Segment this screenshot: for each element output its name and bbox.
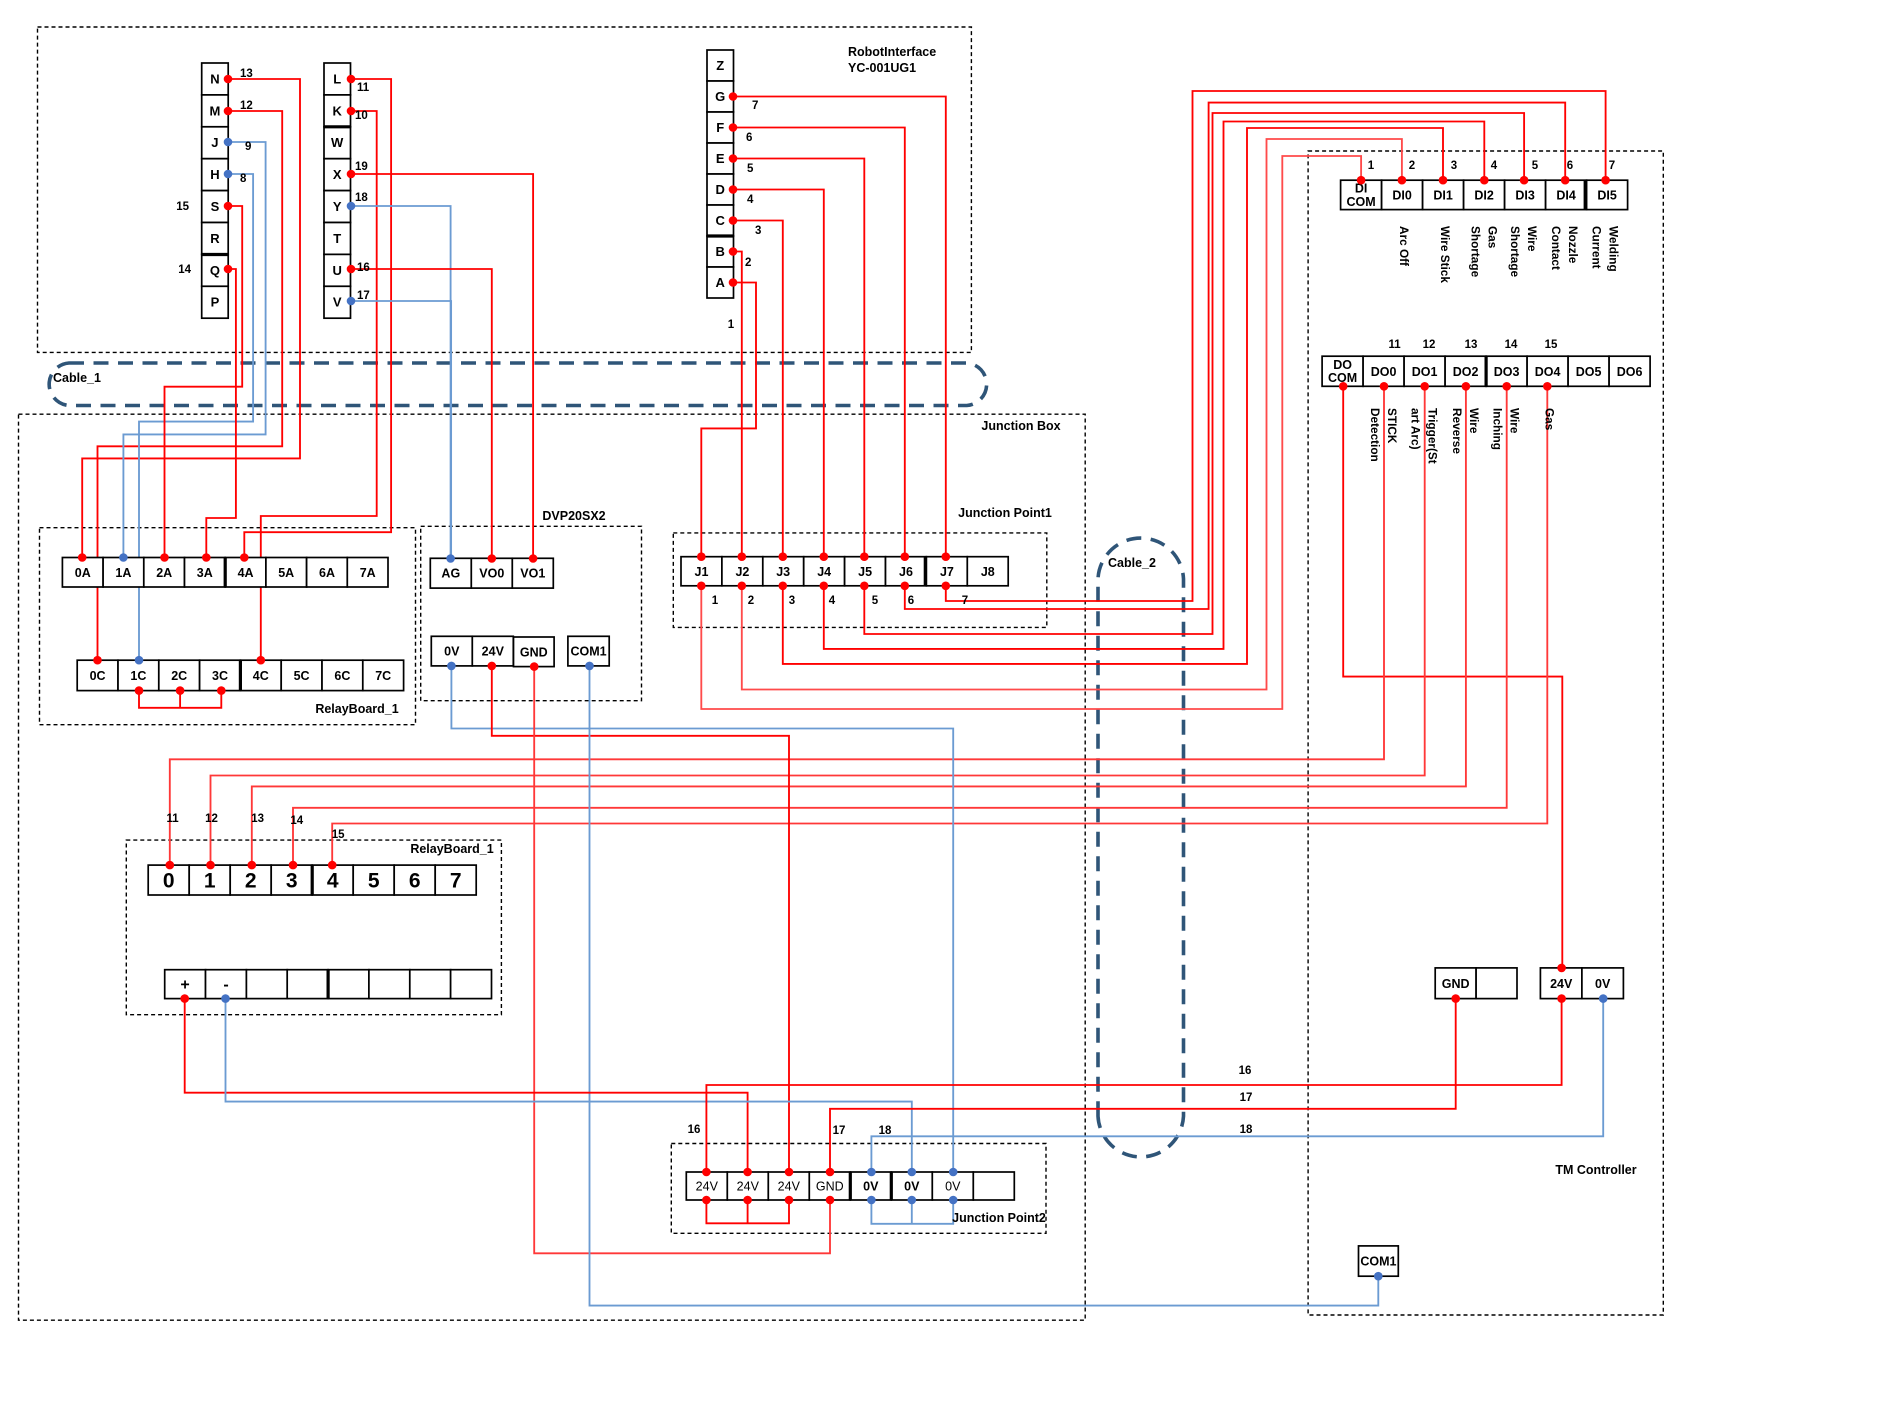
svg-text:A: A: [716, 275, 726, 290]
svg-text:16: 16: [357, 262, 370, 274]
wire - to JP2 0V2: [226, 999, 912, 1172]
svg-text:7: 7: [1609, 160, 1615, 172]
svg-text:13: 13: [240, 68, 253, 80]
svg-text:6: 6: [409, 870, 421, 893]
heavy separator under K: [324, 125, 351, 128]
terminal column Z-A: [707, 50, 734, 298]
node dots TM DO: [1339, 382, 1348, 391]
svg-text:Reverse: Reverse: [1450, 408, 1464, 454]
node dots lower relay: [166, 861, 175, 870]
heavy separator under R: [202, 253, 229, 256]
svg-text:Current: Current: [1590, 226, 1604, 269]
svg-text:14: 14: [178, 264, 191, 276]
svg-text:17: 17: [357, 290, 370, 302]
svg-text:Junction Point1: Junction Point1: [958, 506, 1052, 520]
heavy separator under C: [707, 234, 734, 237]
svg-text:2C: 2C: [171, 669, 187, 683]
svg-text:6A: 6A: [319, 566, 335, 580]
svg-text:Contact: Contact: [1549, 226, 1563, 270]
svg-text:3: 3: [789, 595, 795, 607]
svg-text:16: 16: [688, 1124, 701, 1136]
svg-text:Gas: Gas: [1485, 226, 1499, 249]
cable Cable_1 capsule: [49, 363, 986, 406]
svg-text:0V: 0V: [863, 1180, 879, 1194]
wire DVP 24V to JP2 24V: [492, 666, 789, 1172]
wire J2-2 to DI0: [742, 139, 1402, 690]
svg-text:DI5: DI5: [1597, 188, 1617, 202]
strip relay contacts A: [62, 558, 388, 588]
heavy separator DI4|DI5: [1584, 180, 1587, 209]
svg-text:17: 17: [833, 1125, 846, 1137]
svg-text:DO0: DO0: [1371, 365, 1397, 379]
svg-text:11: 11: [167, 813, 180, 825]
svg-text:DO3: DO3: [1494, 365, 1520, 379]
strip DVP analog: [430, 558, 553, 588]
svg-text:YC-001UG1: YC-001UG1: [848, 61, 916, 75]
svg-text:24V: 24V: [696, 1180, 719, 1194]
strip Junction Point1: [681, 557, 1008, 586]
svg-text:DI1: DI1: [1433, 188, 1453, 202]
svg-text:J8: J8: [981, 565, 995, 579]
node dots DVP power: [447, 662, 456, 671]
wire D(4) to J4: [733, 190, 824, 557]
svg-text:Q: Q: [210, 263, 220, 278]
svg-text:11: 11: [357, 82, 370, 94]
svg-text:J6: J6: [899, 565, 913, 579]
svg-text:19: 19: [355, 161, 368, 173]
Junction Box dashed box: [19, 414, 1086, 1320]
svg-text:DI4: DI4: [1556, 188, 1576, 202]
svg-text:Shortage: Shortage: [1468, 226, 1482, 278]
svg-text:6C: 6C: [334, 669, 350, 683]
svg-text:Z: Z: [716, 58, 724, 73]
terminal column L-V: [324, 63, 351, 318]
svg-text:E: E: [716, 151, 725, 166]
svg-text:B: B: [716, 244, 725, 259]
strip lower relay power: [165, 970, 492, 999]
terminal column N-P: [202, 63, 229, 318]
svg-text:J5: J5: [858, 565, 872, 579]
svg-text:2: 2: [1409, 160, 1415, 172]
svg-text:3: 3: [1451, 160, 1457, 172]
svg-text:13: 13: [1465, 339, 1478, 351]
svg-text:M: M: [209, 103, 220, 118]
svg-text:5: 5: [1532, 160, 1539, 172]
wire bus 24V JP2: [706, 1200, 789, 1223]
svg-text:S: S: [211, 199, 220, 214]
svg-text:J3: J3: [776, 565, 790, 579]
svg-text:7: 7: [962, 595, 968, 607]
wire U(16) to VO0: [351, 269, 492, 559]
svg-text:VO1: VO1: [520, 567, 545, 581]
RobotInterface outer dashed box: [38, 27, 972, 352]
svg-text:VO0: VO0: [479, 567, 504, 581]
svg-text:5: 5: [872, 595, 879, 607]
svg-text:6: 6: [1567, 160, 1573, 172]
svg-text:7: 7: [752, 100, 758, 112]
svg-text:Junction Box: Junction Box: [981, 419, 1060, 433]
node dots Junction Point1: [697, 552, 706, 561]
svg-text:1: 1: [204, 870, 216, 893]
svg-text:COM1: COM1: [1360, 1255, 1396, 1269]
svg-text:COM: COM: [1347, 195, 1376, 209]
svg-text:Wire: Wire: [1508, 408, 1522, 434]
svg-text:0V: 0V: [904, 1180, 920, 1194]
svg-text:N: N: [210, 72, 219, 87]
svg-text:DI3: DI3: [1515, 188, 1535, 202]
svg-text:4: 4: [829, 595, 836, 607]
wire DVP GND to JP2 GND: [534, 667, 830, 1254]
svg-text:6: 6: [908, 595, 914, 607]
svg-text:12: 12: [240, 100, 253, 112]
strip TM GND: [1435, 968, 1517, 999]
svg-text:Cable_2: Cable_2: [1108, 556, 1156, 570]
svg-text:F: F: [716, 120, 724, 135]
svg-text:U: U: [333, 263, 342, 278]
svg-text:Welding: Welding: [1607, 226, 1621, 272]
svg-text:G: G: [715, 89, 725, 104]
svg-text:24V: 24V: [778, 1180, 801, 1194]
svg-text:0V: 0V: [444, 645, 460, 659]
svg-text:T: T: [333, 231, 341, 246]
svg-text:Shortage: Shortage: [1508, 226, 1522, 278]
svg-text:17: 17: [1240, 1092, 1253, 1104]
wire DVP COM1 to TM COM1: [590, 666, 1379, 1306]
wire V(17) to AG: [351, 301, 451, 559]
svg-text:18: 18: [1240, 1124, 1253, 1136]
svg-text:0V: 0V: [1595, 977, 1611, 991]
wire bus 1C-2C-3C: [139, 691, 221, 708]
wire S(15) to 2A: [165, 206, 243, 558]
svg-text:RelayBoard_1: RelayBoard_1: [315, 702, 398, 716]
svg-text:AG: AG: [441, 567, 460, 581]
svg-text:7A: 7A: [360, 566, 376, 580]
svg-text:10: 10: [355, 110, 368, 122]
svg-text:1: 1: [712, 595, 719, 607]
wire DO0-11 to relay 0: [170, 386, 1384, 865]
node dots DVP analog: [446, 554, 455, 563]
svg-text:16: 16: [1239, 1065, 1252, 1077]
node dots column 1: [224, 75, 233, 84]
strip TM DO: [1322, 356, 1650, 386]
wire J3-3 to DI1: [783, 128, 1443, 664]
heavy separator J6|J7: [924, 557, 927, 586]
svg-text:W: W: [331, 135, 344, 150]
svg-text:Y: Y: [333, 199, 342, 214]
node dots TM power: [1451, 994, 1460, 1003]
svg-text:2: 2: [245, 870, 257, 893]
svg-text:4: 4: [747, 194, 754, 206]
svg-text:11: 11: [1389, 339, 1402, 351]
svg-text:0: 0: [163, 870, 175, 893]
RelayBoard_1 dashed box (lower): [126, 840, 501, 1015]
wire 18 JP2 0V1 to TM 0V: [871, 999, 1603, 1172]
heavy separator 3C|4C: [239, 660, 242, 690]
heavy separator 3A|4A: [224, 558, 227, 588]
node dots relay C row: [93, 656, 102, 665]
svg-text:J: J: [211, 135, 218, 150]
heavy separator 3|4: [311, 865, 314, 895]
wire K(10) to 4C: [261, 111, 377, 660]
wire 16 JP2 24V1 to TM 24V: [706, 999, 1561, 1172]
svg-text:Gas: Gas: [1542, 408, 1556, 431]
svg-text:DO5: DO5: [1576, 365, 1602, 379]
DVP20SX2 dashed box: [421, 526, 642, 700]
svg-text:14: 14: [1505, 339, 1518, 351]
svg-text:Wire: Wire: [1467, 408, 1481, 434]
svg-text:COM1: COM1: [570, 645, 606, 659]
svg-text:5: 5: [368, 870, 380, 893]
svg-text:R: R: [210, 231, 220, 246]
strip TM 24V 0V: [1540, 968, 1623, 999]
svg-text:15: 15: [332, 829, 345, 841]
wire DO2-13 to relay 2: [252, 386, 1466, 865]
Junction Point1 dashed box: [673, 533, 1047, 628]
svg-text:2A: 2A: [156, 566, 172, 580]
TM Controller dashed box: [1308, 151, 1663, 1315]
svg-text:V: V: [333, 295, 342, 310]
svg-text:5A: 5A: [278, 566, 294, 580]
svg-text:4: 4: [1491, 160, 1498, 172]
node dot TM COM1: [1374, 1272, 1383, 1281]
wire E(5) to J5: [733, 159, 864, 557]
svg-text:14: 14: [290, 815, 303, 827]
svg-text:RobotInterface: RobotInterface: [848, 45, 936, 59]
svg-text:18: 18: [879, 1125, 892, 1137]
wire J5-5 to DI3: [864, 113, 1524, 634]
wire Y(18) to AG: [351, 206, 451, 559]
svg-text:1: 1: [1368, 160, 1375, 172]
wire N(13) to 0A: [82, 79, 300, 558]
svg-text:DO1: DO1: [1412, 365, 1438, 379]
svg-text:DI2: DI2: [1474, 188, 1494, 202]
wire L(11) to 4A: [244, 79, 391, 558]
wire bus drop 0V2: [911, 1200, 913, 1224]
svg-text:Junction Point2: Junction Point2: [952, 1211, 1046, 1225]
strip relay contacts C: [77, 660, 403, 690]
wire bus drop 24V2: [747, 1200, 749, 1223]
Junction Point2 dashed box: [671, 1144, 1046, 1234]
node dots relay A row: [78, 553, 87, 562]
wire J6-6 to DI4: [905, 103, 1565, 609]
wire DVP 0V to JP2 0V: [451, 666, 953, 1172]
svg-text:7: 7: [450, 870, 462, 893]
svg-text:RelayBoard_1: RelayBoard_1: [410, 842, 493, 856]
wire B(2) to J2: [733, 252, 742, 557]
svg-text:art Arc): art Arc): [1409, 408, 1423, 450]
svg-text:24V: 24V: [1550, 977, 1573, 991]
svg-text:5: 5: [747, 163, 754, 175]
svg-text:0V: 0V: [945, 1180, 961, 1194]
svg-text:Nozzle: Nozzle: [1566, 226, 1580, 264]
svg-text:2: 2: [745, 257, 751, 269]
svg-text:Wire: Wire: [1525, 226, 1539, 252]
svg-text:1A: 1A: [115, 566, 131, 580]
cable Cable_2 capsule: [1098, 538, 1184, 1157]
wire + to JP2 24V2: [185, 999, 748, 1172]
svg-text:8: 8: [240, 173, 247, 185]
svg-text:X: X: [333, 167, 342, 182]
svg-text:6: 6: [746, 132, 752, 144]
wire J4-4 to DI2: [824, 122, 1485, 649]
svg-text:3C: 3C: [212, 669, 228, 683]
wire J1-1 to DI COM: [701, 156, 1361, 709]
wire F(6) to J6: [733, 128, 905, 557]
svg-text:GND: GND: [1442, 977, 1470, 991]
node dots Junction Point2: [702, 1168, 711, 1177]
svg-text:7C: 7C: [375, 669, 391, 683]
svg-text:J7: J7: [940, 565, 954, 579]
svg-text:J2: J2: [735, 565, 749, 579]
svg-text:Detection: Detection: [1368, 408, 1382, 462]
svg-text:13: 13: [251, 813, 264, 825]
RelayBoard_1 dashed box (top): [40, 528, 416, 725]
heavy separator DO2|DO3: [1484, 356, 1487, 386]
svg-text:DVP20SX2: DVP20SX2: [542, 509, 605, 523]
svg-text:24V: 24V: [737, 1180, 760, 1194]
svg-text:DO2: DO2: [1453, 365, 1479, 379]
svg-text:1: 1: [728, 319, 735, 331]
svg-text:J1: J1: [695, 565, 709, 579]
svg-text:Arc Off: Arc Off: [1397, 226, 1411, 266]
strip lower relay outputs: [148, 865, 476, 895]
svg-text:4C: 4C: [253, 669, 269, 683]
svg-text:12: 12: [205, 813, 218, 825]
svg-text:12: 12: [1423, 339, 1436, 351]
svg-text:2: 2: [748, 595, 754, 607]
svg-text:+: +: [180, 977, 189, 994]
wire G(7) to J7: [733, 97, 946, 557]
svg-text:0A: 0A: [75, 566, 91, 580]
svg-text:C: C: [716, 213, 726, 228]
wire DO4-15 to relay 4: [332, 386, 1547, 865]
svg-text:24V: 24V: [482, 645, 505, 659]
svg-text:DO: DO: [1333, 358, 1352, 372]
svg-text:3: 3: [286, 870, 298, 893]
strip DVP COM1: [568, 636, 609, 666]
svg-text:J4: J4: [817, 565, 831, 579]
svg-text:Wire Stick: Wire Stick: [1438, 226, 1452, 283]
wire J7-7 to DI5: [946, 91, 1606, 601]
wire Q(14) to 3A: [206, 269, 236, 558]
wire DO COM to TM 24V: [1343, 386, 1562, 968]
heavy separator 0V|0V JP2: [890, 1172, 893, 1200]
svg-text:DO4: DO4: [1535, 365, 1561, 379]
heavy separator GND|0V JP2: [849, 1172, 852, 1200]
svg-text:18: 18: [355, 192, 368, 204]
wire bus drop 2C: [179, 691, 181, 708]
svg-text:9: 9: [245, 141, 251, 153]
heavy separator +row: [327, 970, 330, 999]
svg-text:L: L: [333, 72, 341, 87]
svg-text:0C: 0C: [90, 669, 106, 683]
wire H(8) to 1C: [139, 174, 253, 660]
wire C(3) to J3: [733, 221, 783, 557]
wire M(12) to 0C: [98, 111, 283, 660]
wire J(9) to 1A: [123, 142, 265, 558]
svg-text:4A: 4A: [238, 566, 254, 580]
strip TM COM1: [1359, 1246, 1399, 1276]
wire DO3-14 to relay 3: [293, 386, 1507, 865]
svg-text:4: 4: [327, 870, 339, 893]
wire 17 JP2 GND to TM GND: [830, 999, 1456, 1172]
wire DO1-12 to relay 1: [211, 386, 1425, 865]
svg-text:5C: 5C: [294, 669, 310, 683]
svg-text:Cable_1: Cable_1: [53, 371, 101, 385]
node dots column 2: [347, 75, 356, 84]
wire A(1) to J1: [701, 283, 756, 557]
svg-text:P: P: [211, 295, 220, 310]
svg-text:TM Controller: TM Controller: [1555, 1163, 1636, 1177]
svg-text:15: 15: [176, 201, 189, 213]
svg-text:15: 15: [1545, 339, 1558, 351]
svg-text:GND: GND: [816, 1180, 844, 1194]
wire bus 0V JP2: [871, 1200, 953, 1224]
strip DVP GND: [514, 637, 555, 667]
svg-text:Trigger(St: Trigger(St: [1426, 408, 1440, 464]
svg-text:DI0: DI0: [1392, 188, 1412, 202]
svg-text:Inching: Inching: [1491, 408, 1505, 450]
svg-text:STICK: STICK: [1385, 408, 1399, 444]
svg-text:1C: 1C: [130, 669, 146, 683]
svg-text:3: 3: [755, 225, 761, 237]
strip TM DI: [1341, 180, 1628, 209]
svg-text:GND: GND: [520, 645, 548, 659]
strip DVP 0V 24V: [431, 636, 513, 666]
node dots column 3 G-A: [729, 92, 738, 101]
svg-text:K: K: [333, 103, 343, 118]
svg-text:H: H: [210, 167, 219, 182]
wire X(19) to VO1: [351, 174, 533, 559]
svg-text:-: -: [223, 977, 228, 994]
node dots TM DI: [1357, 176, 1366, 185]
svg-text:3A: 3A: [197, 566, 213, 580]
svg-text:D: D: [716, 182, 725, 197]
svg-text:DO6: DO6: [1617, 365, 1643, 379]
strip Junction Point2: [686, 1172, 1014, 1200]
